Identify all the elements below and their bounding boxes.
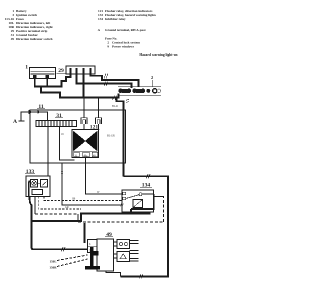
svg-text:GR: GR (65, 206, 69, 209)
legend left column (5, 9, 54, 41)
svg-text:Hazard warning light-on: Hazard warning light-on (139, 53, 177, 57)
wire to relay connector 2 (98, 98, 100, 117)
ground terminal A (13, 112, 25, 126)
wire to relay connector 1 (83, 98, 85, 117)
wire battery(+) to strip 29 (47, 77, 71, 87)
connector circle (153, 89, 157, 93)
svg-text:Direction indicator switch: Direction indicator switch (16, 37, 53, 41)
svg-text:A: A (13, 119, 17, 125)
svg-text:Inhibitor relay: Inhibitor relay (105, 17, 126, 21)
switch 49 bottom outlet wire (106, 271, 121, 276)
svg-text:134: 134 (98, 17, 103, 21)
svg-text:49: 49 (11, 37, 15, 41)
fuse 2 (118, 89, 122, 93)
svg-text:Power windows: Power windows (112, 45, 135, 49)
connector loop 2 (96, 118, 102, 124)
inhibitor relay 134 (122, 183, 164, 213)
svg-text:150L: 150L (50, 260, 57, 264)
fuse 9 (132, 89, 136, 93)
relay output wire to inhibitor relay 134 (86, 158, 123, 195)
wire gauge ticks (104, 74, 108, 86)
switch contact box (114, 240, 130, 249)
wire battery(-) main feed staircase (35, 78, 48, 87)
indicator lamp box (114, 252, 130, 262)
direction indicator switch 49 (85, 232, 114, 271)
connector arrow on A wire (29, 110, 33, 114)
flasher relay 121 (72, 125, 100, 158)
dashed thick wire top into box 49 (84, 223, 86, 243)
svg-text:150R: 150R (49, 266, 57, 270)
ground busbar 31 (36, 113, 77, 127)
wire busbar down to switch 133 (47, 127, 49, 177)
wire A to busbar (21, 112, 48, 120)
fuse terminal dot (146, 89, 150, 93)
svg-text:2: 2 (151, 75, 153, 80)
svg-text:BL-R: BL-R (112, 105, 118, 108)
strip 29 stub 4 wire to fuse row (91, 68, 139, 87)
output stubs to indicators (130, 241, 139, 262)
svg-text:Ground terminal, RH A-post: Ground terminal, RH A-post (105, 28, 147, 32)
legend right column (98, 9, 157, 49)
hazard switch 133 (25, 169, 50, 197)
positive terminal strip 29 (57, 66, 96, 74)
main supply loop right side (121, 176, 169, 276)
strip 29 stub 3 wire down to relay feed (83, 68, 85, 98)
dashed thick wire 133 to 134 coil circuit (34, 197, 36, 215)
strip 29 stub 2 wire to fuse row (77, 68, 132, 88)
battery 1 (25, 65, 55, 79)
dashed thin wire 133 to 134 (44, 197, 122, 201)
box 11 (dashboard unit) (30, 104, 126, 163)
fuse row (118, 75, 161, 95)
svg-text:BL-GR: BL-GR (107, 135, 115, 138)
connector loop 1 (81, 118, 87, 124)
wire busbar to relay 121 ground pin (60, 127, 75, 161)
svg-text:SB: SB (72, 198, 75, 201)
strip 29 stub 1 (70, 68, 72, 78)
wire from box 11 down (62, 163, 122, 205)
svg-text:1: 1 (25, 65, 28, 71)
main thick wire from 133 down-left to switch 49 (30, 196, 88, 249)
supply wire from fuse down right side (117, 98, 124, 177)
dashed wire GR from 133 (39, 197, 81, 210)
thick branch wire to relay 134 contact (32, 194, 154, 221)
